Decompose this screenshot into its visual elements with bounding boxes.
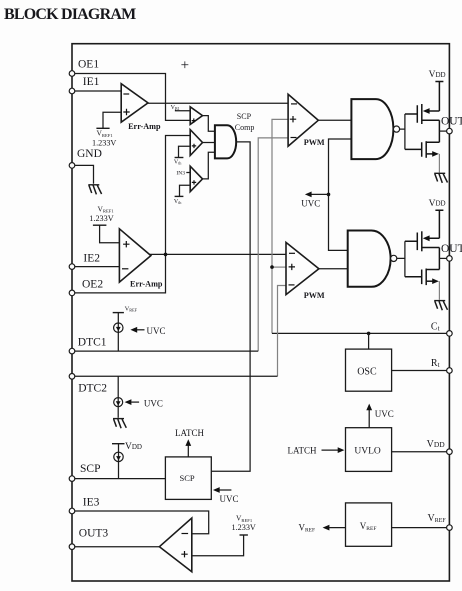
pin OUT3 <box>69 528 108 550</box>
svg-text:IE3: IE3 <box>83 496 100 508</box>
svg-text:LATCH: LATCH <box>175 428 205 438</box>
op-amp Err-Amp1 <box>121 84 161 132</box>
svg-text:PWM: PWM <box>304 291 325 300</box>
wire NAND2 output to driver gates <box>397 241 405 276</box>
and-gate SCP Comp <box>215 112 254 158</box>
svg-text:IN3: IN3 <box>176 170 185 176</box>
nand gate N1 <box>351 99 399 159</box>
svg-text:OUT3: OUT3 <box>79 528 109 540</box>
wire LATCH output of SCP block <box>175 428 205 457</box>
node plus mark <box>181 58 189 74</box>
junction UVC tap <box>301 192 330 209</box>
comparator SCP2 <box>190 130 202 156</box>
pin OUT2 <box>441 243 462 261</box>
wire comparator2 output to AND gate <box>203 142 215 144</box>
svg-text:OUT1: OUT1 <box>441 116 462 128</box>
svg-text:IE1: IE1 <box>83 76 100 88</box>
junction PWM2 noninverting input <box>270 265 274 269</box>
wire NAND1 output to driver gates <box>400 114 405 149</box>
wire GND pin to chassis ground <box>75 165 94 183</box>
block UVLO <box>346 428 392 472</box>
wire PWM1 output to NAND1 <box>318 119 351 121</box>
ground symbol at DTC2 <box>113 419 126 429</box>
svg-text:UVC: UVC <box>147 326 166 336</box>
wire SCP comparator output down to SCP block <box>211 142 250 471</box>
svg-text:UVC: UVC <box>375 409 394 419</box>
pin DTC1 <box>69 337 107 354</box>
pin GND <box>69 148 102 168</box>
svg-text:OSC: OSC <box>357 367 377 378</box>
svg-text:1.233V: 1.233V <box>89 214 113 223</box>
svg-text:PWM: PWM <box>304 138 325 147</box>
wire IE3 to comparator3 inverting input <box>75 511 209 534</box>
svg-text:GND: GND <box>77 148 102 160</box>
svg-text:LATCH: LATCH <box>288 445 318 455</box>
svg-text:UVC: UVC <box>301 199 320 209</box>
svg-text:VREF: VREF <box>125 305 138 312</box>
svg-text:Comp: Comp <box>235 123 255 132</box>
wire Err-Amp1 noninverting input to Vref1 bar <box>96 112 121 128</box>
label IN3 stub at comparator 3 <box>176 170 190 176</box>
svg-text:Err-Amp: Err-Amp <box>130 279 163 288</box>
block OSC <box>346 333 392 391</box>
svg-text:1.233V: 1.233V <box>232 523 256 532</box>
wire DTC2 net to PWM2 lower input <box>75 286 286 377</box>
svg-text:SCP: SCP <box>237 112 252 121</box>
wire OE2 to Err-Amp2 output node <box>75 136 190 293</box>
wire comparator2 noninverting input to Vth bar <box>174 146 190 165</box>
svg-text:VREF1: VREF1 <box>97 129 114 138</box>
pin OUT1 <box>441 116 462 134</box>
svg-text:1.233V: 1.233V <box>92 139 116 148</box>
wire VREF block to VREF pin <box>392 527 447 529</box>
pin VDD <box>427 439 453 455</box>
output stage channel 1 <box>405 70 448 183</box>
svg-text:+: + <box>181 58 189 74</box>
wire UVC net to NAND gates <box>329 139 352 250</box>
svg-text:VDD: VDD <box>427 439 446 450</box>
current source DTC2 with ground <box>114 376 123 418</box>
wire VREF output arrow <box>299 522 346 533</box>
svg-text:UVLO: UVLO <box>354 446 381 456</box>
nand gate N2 <box>348 231 397 287</box>
svg-text:OUT2: OUT2 <box>441 243 462 255</box>
wire amp3 noninverting input to Vref1 bar <box>192 535 248 556</box>
svg-text:DTC2: DTC2 <box>78 383 107 395</box>
pin SCP <box>69 463 100 482</box>
output stage channel 2 <box>405 199 448 310</box>
pin Ct <box>431 321 452 336</box>
wire OSC to Rt pin <box>392 370 447 372</box>
title BLOCK DIAGRAM <box>4 6 136 23</box>
pin IE3 <box>69 496 99 514</box>
comparator PWM2 <box>286 242 325 300</box>
svg-text:VREF: VREF <box>299 522 316 533</box>
ground symbol at GND pin <box>88 185 101 195</box>
current source DTC1 with Vref rail <box>113 305 138 351</box>
comparator SCP3 <box>190 166 202 191</box>
wire Ct triangle net to PWM noninverting inputs <box>272 119 447 333</box>
block VREF <box>346 503 392 546</box>
svg-text:Err-Amp: Err-Amp <box>128 122 161 131</box>
svg-text:VDD: VDD <box>125 442 142 452</box>
wire DTC1 net to PWM1 lower input <box>75 138 288 351</box>
wire IE1 to Err-Amp1 inverting input <box>75 90 121 92</box>
wire Err-Amp1 output to PWM1 inverting input <box>147 102 289 104</box>
pin IE1 <box>69 76 99 94</box>
svg-text:VREF: VREF <box>428 513 447 524</box>
wire comparator3 noninverting input to Vth bar <box>174 185 190 205</box>
svg-text:OE1: OE1 <box>78 58 99 70</box>
svg-text:SCP: SCP <box>180 473 195 483</box>
svg-text:UVC: UVC <box>220 494 239 504</box>
op-amp Err-Amp2 <box>119 229 162 289</box>
svg-text:VDD: VDD <box>429 70 446 80</box>
svg-text:BLOCK DIAGRAM: BLOCK DIAGRAM <box>4 6 136 23</box>
junction OSC to Ct <box>367 332 371 336</box>
wire UVC control arrow at DTC1 <box>130 326 165 336</box>
current source SCP pullup from VDD <box>112 442 142 479</box>
svg-text:OE2: OE2 <box>82 279 103 291</box>
wire OE1 net to SCP comparator 1 <box>75 74 190 121</box>
svg-text:Rt: Rt <box>431 358 440 369</box>
pin Rt <box>431 358 452 373</box>
label Vb1 reference at comparator 1 <box>171 105 191 111</box>
svg-text:VDD: VDD <box>429 199 446 209</box>
svg-text:SCP: SCP <box>80 463 100 475</box>
wire UVC control arrow at DTC2 <box>125 398 163 408</box>
pin IE2 <box>69 252 100 269</box>
svg-text:IE2: IE2 <box>83 252 100 264</box>
wire UVLO to VDD pin <box>392 451 447 453</box>
wire UVC output of UVLO <box>366 404 394 428</box>
block SCP latch <box>165 457 211 500</box>
label Vref1 1.233V for amp3 <box>232 514 256 533</box>
svg-text:Ct: Ct <box>431 321 440 332</box>
comparator PWM1 <box>288 94 325 147</box>
comparator amp3 <box>159 518 191 572</box>
svg-text:Vth: Vth <box>174 159 181 165</box>
pin OE2 <box>69 279 103 296</box>
comparator SCP1 <box>190 107 202 125</box>
wire Err-Amp2 noninverting input from Vref bar <box>93 225 120 243</box>
wire SCP pin to SCP block <box>75 478 166 480</box>
IC outline box <box>72 44 449 581</box>
svg-text:Vth: Vth <box>174 199 181 205</box>
svg-text:UVC: UVC <box>144 398 163 408</box>
wire PWM2 output to NAND2 <box>319 268 348 270</box>
label Vref1 1.233V for Err-Amp1 <box>92 129 116 148</box>
wire LATCH input to UVLO <box>288 445 345 455</box>
label Vref1 1.233V for Err-Amp2 <box>89 204 114 223</box>
pin OE1 <box>69 58 99 76</box>
wire comparator3 output to AND gate <box>203 152 215 179</box>
svg-text:VREF1: VREF1 <box>98 204 115 213</box>
wire IE2 to Err-Amp2 inverting input <box>75 266 120 268</box>
pin DTC2 <box>69 374 107 395</box>
svg-text:DTC1: DTC1 <box>78 337 107 349</box>
junction Err-Amp2 output node <box>164 253 168 257</box>
wire comparator1 output to AND gate <box>203 116 215 132</box>
wire Err-Amp2 output to PWM2 inverting input <box>150 253 286 255</box>
svg-text:VREF1: VREF1 <box>236 514 253 523</box>
pin VREF <box>428 513 453 531</box>
wire UVC arrow into SCP block <box>213 487 239 504</box>
wire amp3 output to OUT3 pin <box>75 546 160 548</box>
